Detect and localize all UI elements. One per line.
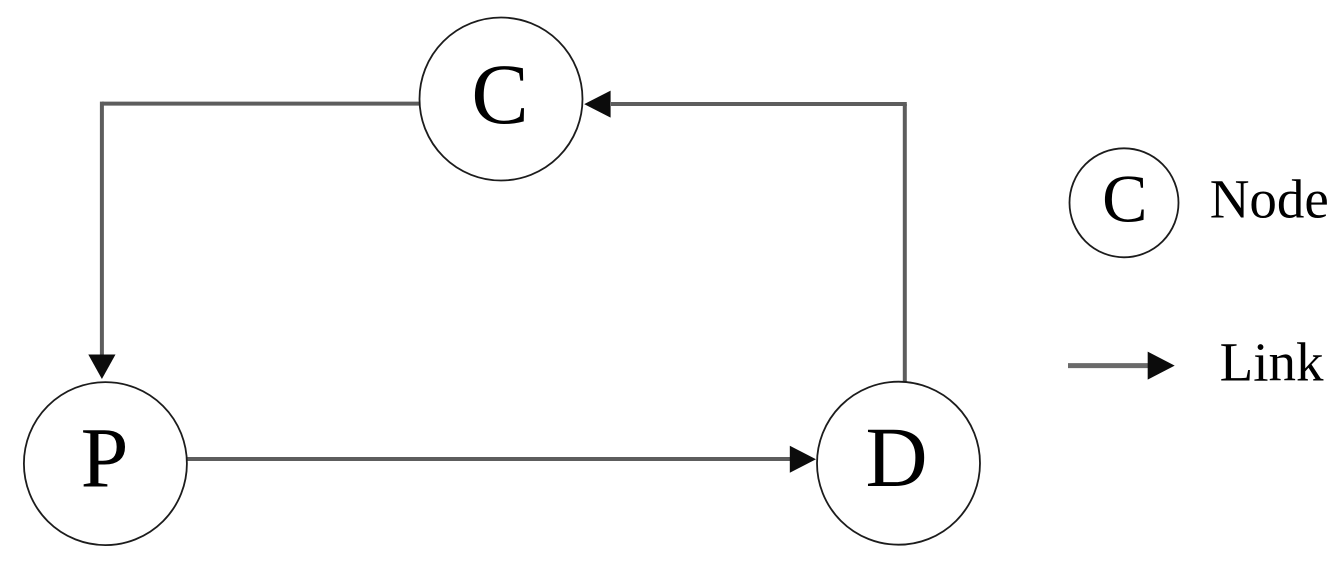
svg-text:Link: Link [1220,332,1324,393]
node C circle [420,18,583,181]
svg-text:P: P [81,410,129,506]
arrowhead into D (pointing right) [790,446,816,473]
wire P to D (horizontal) [185,457,792,461]
legend arrowhead [1148,352,1175,380]
arrowhead into C (pointing left) [584,91,610,118]
legend arrow line [1068,363,1150,368]
svg-text:Node: Node [1210,169,1329,230]
wire top-right corner to C (horizontal) [611,102,907,106]
wire C to left corner (horizontal) [102,102,421,106]
svg-text:D: D [866,409,928,505]
wire left vertical down to P [100,102,104,356]
svg-text:C: C [471,46,528,142]
svg-text:C: C [1102,161,1147,237]
arrowhead into P (pointing down) [88,355,115,380]
node D circle [817,382,980,545]
node P circle [24,382,187,545]
wire D top vertical up [903,104,907,383]
legend node circle [1070,148,1179,257]
